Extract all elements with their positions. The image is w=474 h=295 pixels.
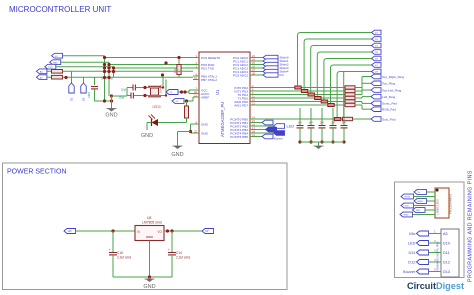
svg-text:5V: 5V <box>206 230 209 233</box>
svg-text:MISO: MISO <box>418 201 424 203</box>
svg-text:U8: U8 <box>147 216 151 220</box>
svg-text:·: · <box>437 193 438 197</box>
svg-text:MOSI: MOSI <box>405 197 411 199</box>
svg-text:RST: RST <box>416 210 421 212</box>
svg-text:C16: C16 <box>117 251 123 255</box>
svg-text:Top-Left_Ring: Top-Left_Ring <box>382 88 402 92</box>
svg-text:22pf: 22pf <box>121 88 126 92</box>
svg-text:100nf: 100nf <box>88 92 91 98</box>
svg-text:PROGRAMMING AND REMAINING PINS: PROGRAMMING AND REMAINING PINS <box>468 170 474 282</box>
svg-text:D2: D2 <box>70 97 74 101</box>
svg-text:Solo_Pad: Solo_Pad <box>382 117 396 121</box>
svg-text:RGB_Pad: RGB_Pad <box>382 108 396 112</box>
svg-text:Top_Right_Ring: Top_Right_Ring <box>382 75 404 79</box>
svg-text:Buzzer: Buzzer <box>403 269 416 274</box>
svg-text:104: 104 <box>342 122 347 125</box>
svg-text:LED: LED <box>287 124 295 129</box>
svg-text:MICROCONTROLLER UNIT: MICROCONTROLLER UNIT <box>9 5 111 14</box>
svg-text:D3: D3 <box>82 97 86 101</box>
svg-text:10k: 10k <box>173 68 177 73</box>
svg-text:SCK: SCK <box>405 206 410 208</box>
svg-text:Buzzer: Buzzer <box>274 137 283 141</box>
svg-text:GND: GND <box>143 284 155 290</box>
svg-text:PD1 TXD: PD1 TXD <box>201 66 215 70</box>
svg-text:22pf: 22pf <box>119 96 124 100</box>
svg-text:GND: GND <box>404 215 409 217</box>
svg-text:100nf smd: 100nf smd <box>101 78 113 81</box>
svg-text:104: 104 <box>309 122 314 125</box>
svg-text:16MHz: 16MHz <box>159 84 163 93</box>
svg-text:+: + <box>167 248 169 252</box>
svg-text:REMAINING DIGITAL PINS: REMAINING DIGITAL PINS <box>437 241 440 271</box>
svg-text:12V: 12V <box>68 230 73 233</box>
svg-text:D12: D12 <box>443 261 450 265</box>
svg-text:104: 104 <box>320 122 325 125</box>
svg-text:POWER SECTION: POWER SECTION <box>7 169 67 176</box>
svg-text:PC5 ADC5: PC5 ADC5 <box>233 73 248 77</box>
svg-text:Sonic_Pad: Sonic_Pad <box>382 102 397 106</box>
svg-text:2.2uf smd: 2.2uf smd <box>117 256 131 260</box>
svg-text:Pot: Pot <box>280 73 285 77</box>
svg-text:ATMEGA328P_PU: ATMEGA328P_PU <box>220 102 225 137</box>
svg-text:2.2uf smd: 2.2uf smd <box>176 256 190 260</box>
svg-text:PROGRAMMING: PROGRAMMING <box>449 194 453 214</box>
svg-text:D10: D10 <box>443 242 450 246</box>
svg-text:GND: GND <box>201 131 209 135</box>
svg-text:Left_Ring: Left_Ring <box>382 95 396 99</box>
svg-text:Top_Ring: Top_Ring <box>382 82 395 86</box>
svg-text:VI: VI <box>137 230 140 234</box>
svg-text:VO: VO <box>157 230 162 234</box>
svg-text:D13: D13 <box>443 270 450 274</box>
svg-text:104: 104 <box>331 122 336 125</box>
svg-text:A5: A5 <box>443 232 448 236</box>
svg-text:PB7 XTAL2: PB7 XTAL2 <box>201 78 217 82</box>
svg-text:PC6 RESET#: PC6 RESET# <box>201 56 220 60</box>
svg-text:Mic: Mic <box>409 231 415 236</box>
svg-text:CīrcuitDigest: CīrcuitDigest <box>407 281 464 291</box>
svg-text:D11: D11 <box>408 250 416 255</box>
svg-text:LED: LED <box>408 241 416 246</box>
svg-text:AREF: AREF <box>201 95 209 99</box>
svg-text:U1: U1 <box>215 89 220 95</box>
svg-text:GND: GND <box>105 113 117 119</box>
svg-text:LED0: LED0 <box>153 105 161 109</box>
svg-text:D11: D11 <box>443 251 450 255</box>
svg-text:D12: D12 <box>408 260 416 265</box>
svg-text:GND: GND <box>171 152 183 158</box>
svg-text:+: + <box>108 248 110 252</box>
svg-text:C14: C14 <box>176 251 182 255</box>
svg-text:LM7805 smd: LM7805 smd <box>142 221 162 225</box>
svg-text:PCINT5 PB5: PCINT5 PB5 <box>230 135 248 139</box>
svg-text:TXD: TXD <box>48 67 53 69</box>
svg-text:GND: GND <box>201 122 209 126</box>
svg-text:1 MISO 2 SCK: 1 MISO 2 SCK <box>437 199 440 215</box>
svg-text:AIN1 PD7: AIN1 PD7 <box>234 103 248 107</box>
svg-text:104: 104 <box>298 122 303 125</box>
svg-text:GND: GND <box>141 133 153 139</box>
